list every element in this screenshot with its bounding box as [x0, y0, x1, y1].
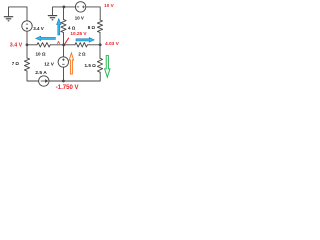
current source I1 2.5A circle	[39, 76, 49, 86]
wire ground2 to node top	[53, 7, 64, 16]
wire R4 top lead	[63, 7, 65, 20]
svg-text:8 Ω: 8 Ω	[88, 25, 96, 30]
junction node 3.4V	[26, 43, 29, 46]
svg-text:3.4 V: 3.4 V	[10, 42, 23, 48]
junction node right middle	[99, 43, 102, 46]
current arrow cyan right above R2	[76, 38, 94, 43]
wire V2 to top-right corner down to R8	[86, 7, 100, 20]
svg-text:10 V: 10 V	[75, 15, 84, 20]
svg-text:2 Ω: 2 Ω	[78, 51, 86, 56]
current arrow orange up beside V3	[69, 53, 73, 74]
junction node bottom	[62, 80, 65, 83]
wire node A down to V3	[63, 45, 65, 57]
wire top node to V2	[64, 6, 76, 8]
current arrow cyan up beside R4	[57, 19, 61, 35]
svg-text:-1.750 V: -1.750 V	[56, 85, 79, 91]
wire V1 bottom to node 3.4V	[26, 31, 28, 45]
current arrow cyan left above R10	[36, 36, 56, 40]
svg-text:10 Ω: 10 Ω	[36, 51, 46, 56]
voltage source V3 12V circle	[58, 57, 68, 67]
svg-text:7 Ω: 7 Ω	[12, 61, 20, 66]
wire R4 bottom lead to node A	[63, 33, 65, 45]
V1 polarity minus top plus bottom	[26, 24, 28, 29]
svg-text:10 V: 10 V	[104, 3, 114, 8]
wire R6 top lead	[99, 45, 101, 58]
red pointer line to node A	[65, 38, 69, 45]
svg-text:4.03 V: 4.03 V	[105, 41, 120, 47]
wire top-left from ground to V1	[9, 7, 28, 21]
wire middle left node to R10	[27, 44, 37, 46]
voltage source V1 3.4V circle	[22, 21, 32, 31]
resistor R8 8ohm vertical	[97, 20, 102, 32]
resistor R2 2ohm horizontal	[75, 43, 87, 47]
wire I1 to bottom node	[49, 80, 64, 82]
I1 internal arrow pointing right	[41, 80, 48, 82]
wire R8 bottom lead	[99, 32, 101, 44]
wire R2 to right middle node	[87, 44, 100, 46]
wire node A to R2	[64, 44, 76, 46]
junction node A	[62, 44, 65, 47]
svg-text:4 Ω: 4 Ω	[68, 26, 76, 31]
svg-text:10.25 V: 10.25 V	[70, 31, 87, 36]
svg-text:12 V: 12 V	[44, 62, 55, 67]
ground G2	[48, 16, 57, 20]
svg-text:2.5 A: 2.5 A	[35, 70, 47, 76]
svg-text:3.4 V: 3.4 V	[33, 26, 44, 31]
V3 polarity plus top minus bottom	[62, 59, 64, 65]
junction node top	[63, 6, 66, 9]
wire V3 to bottom node	[63, 67, 65, 81]
current arrow green down beside R6	[105, 56, 110, 78]
resistor R7 7ohm vertical	[24, 58, 29, 71]
resistor R6 1.5ohm vertical	[97, 58, 102, 72]
wire bottom node to bottom-right corner up to R6	[64, 72, 101, 81]
wire R10 to node A	[50, 44, 63, 46]
ground G1	[4, 17, 13, 21]
resistor R10 10ohm horizontal	[37, 43, 50, 47]
resistor R4 4ohm vertical	[61, 20, 66, 33]
wire R7 bottom to bottom-left corner to I1	[27, 71, 39, 81]
voltage source V2 10V circle	[75, 2, 85, 12]
svg-text:1.5 Ω: 1.5 Ω	[85, 63, 97, 68]
wire R7 top lead	[26, 45, 28, 58]
V2 polarity minus left plus right	[77, 6, 85, 9]
